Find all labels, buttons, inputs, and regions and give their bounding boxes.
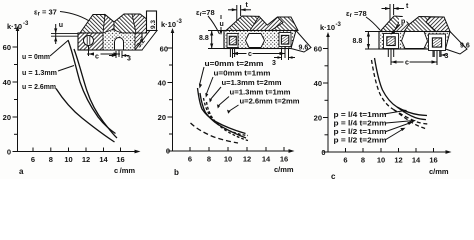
svg-text:u = 0mm: u = 0mm xyxy=(22,54,50,61)
svg-text:p = l/4 t=2mm: p = l/4 t=2mm xyxy=(334,121,387,128)
svg-text:p = l/2 t=1mm: p = l/2 t=1mm xyxy=(334,129,387,136)
svg-text:16: 16 xyxy=(280,155,288,164)
svg-text:εr = 37: εr = 37 xyxy=(34,8,57,18)
svg-text:14: 14 xyxy=(99,155,108,164)
svg-text:c/mm: c/mm xyxy=(274,165,294,174)
svg-text:8: 8 xyxy=(49,155,53,164)
svg-text:p: p xyxy=(401,19,405,26)
svg-text:0: 0 xyxy=(7,148,11,157)
svg-text:40: 40 xyxy=(158,79,166,88)
svg-text:60: 60 xyxy=(160,45,168,54)
svg-text:a: a xyxy=(19,167,24,176)
svg-text:3: 3 xyxy=(272,60,276,67)
svg-text:u=0mm t=1mm: u=0mm t=1mm xyxy=(214,71,271,78)
svg-text:0: 0 xyxy=(166,147,170,156)
svg-text:u=0mm t=2mm: u=0mm t=2mm xyxy=(205,61,264,68)
svg-text:u: u xyxy=(220,21,224,28)
svg-text:c: c xyxy=(405,60,409,67)
svg-text:16: 16 xyxy=(429,156,437,165)
svg-text:εr=78: εr=78 xyxy=(196,8,215,18)
svg-text:c: c xyxy=(248,51,252,58)
svg-text:10: 10 xyxy=(224,155,232,164)
svg-text:10: 10 xyxy=(377,156,385,165)
svg-text:c: c xyxy=(331,172,336,179)
svg-text:0: 0 xyxy=(321,148,325,157)
svg-text:8: 8 xyxy=(207,155,211,164)
svg-text:60: 60 xyxy=(314,45,322,54)
svg-text:60: 60 xyxy=(3,43,11,52)
svg-text:12: 12 xyxy=(394,156,402,165)
svg-text:6: 6 xyxy=(188,155,192,164)
svg-text:u=1.3mm t=2mm: u=1.3mm t=2mm xyxy=(222,80,282,87)
svg-text:40: 40 xyxy=(3,78,11,87)
svg-text:p = l/2 t=2mm: p = l/2 t=2mm xyxy=(334,138,387,145)
svg-text:10: 10 xyxy=(64,155,72,164)
svg-text:3: 3 xyxy=(127,56,131,63)
svg-text:9.3: 9.3 xyxy=(150,20,157,29)
svg-text:3: 3 xyxy=(445,53,449,60)
svg-text:k·10: k·10 xyxy=(320,23,335,32)
svg-text:u=2.6mm t=2mm: u=2.6mm t=2mm xyxy=(240,99,300,106)
svg-text:20: 20 xyxy=(3,113,11,122)
svg-text:8: 8 xyxy=(361,156,365,165)
svg-text:9.6: 9.6 xyxy=(299,45,309,52)
svg-text:9.6: 9.6 xyxy=(460,43,470,50)
svg-text:40: 40 xyxy=(314,79,322,88)
svg-text:-3: -3 xyxy=(23,21,29,27)
svg-text:k·10: k·10 xyxy=(7,22,22,31)
svg-text:12: 12 xyxy=(82,155,90,164)
svg-text:20: 20 xyxy=(314,114,322,123)
svg-text:12: 12 xyxy=(243,155,251,164)
svg-text:8.8: 8.8 xyxy=(199,35,209,42)
svg-text:c: c xyxy=(95,54,99,61)
svg-text:u = 1.3mm: u = 1.3mm xyxy=(22,70,57,77)
svg-text:20: 20 xyxy=(158,113,166,122)
svg-text:6: 6 xyxy=(343,156,347,165)
svg-text:εr =78: εr =78 xyxy=(346,9,367,19)
svg-text:u=1.3mm t=1mm: u=1.3mm t=1mm xyxy=(230,90,291,97)
svg-text:u = 2.6mm: u = 2.6mm xyxy=(22,84,56,91)
svg-text:14: 14 xyxy=(412,156,421,165)
svg-text:16: 16 xyxy=(116,155,124,164)
svg-text:k·10: k·10 xyxy=(161,20,176,29)
svg-text:8.8: 8.8 xyxy=(353,38,363,45)
svg-text:6: 6 xyxy=(31,155,35,164)
svg-text:-3: -3 xyxy=(177,19,183,25)
svg-text:b: b xyxy=(174,168,179,177)
svg-text:14: 14 xyxy=(262,155,271,164)
svg-text:c /mm: c /mm xyxy=(114,166,135,175)
svg-text:p = l/4 t=1mm: p = l/4 t=1mm xyxy=(334,112,387,119)
svg-text:c/mm: c/mm xyxy=(429,167,449,176)
svg-text:u: u xyxy=(59,22,63,29)
svg-text:-3: -3 xyxy=(336,22,342,28)
